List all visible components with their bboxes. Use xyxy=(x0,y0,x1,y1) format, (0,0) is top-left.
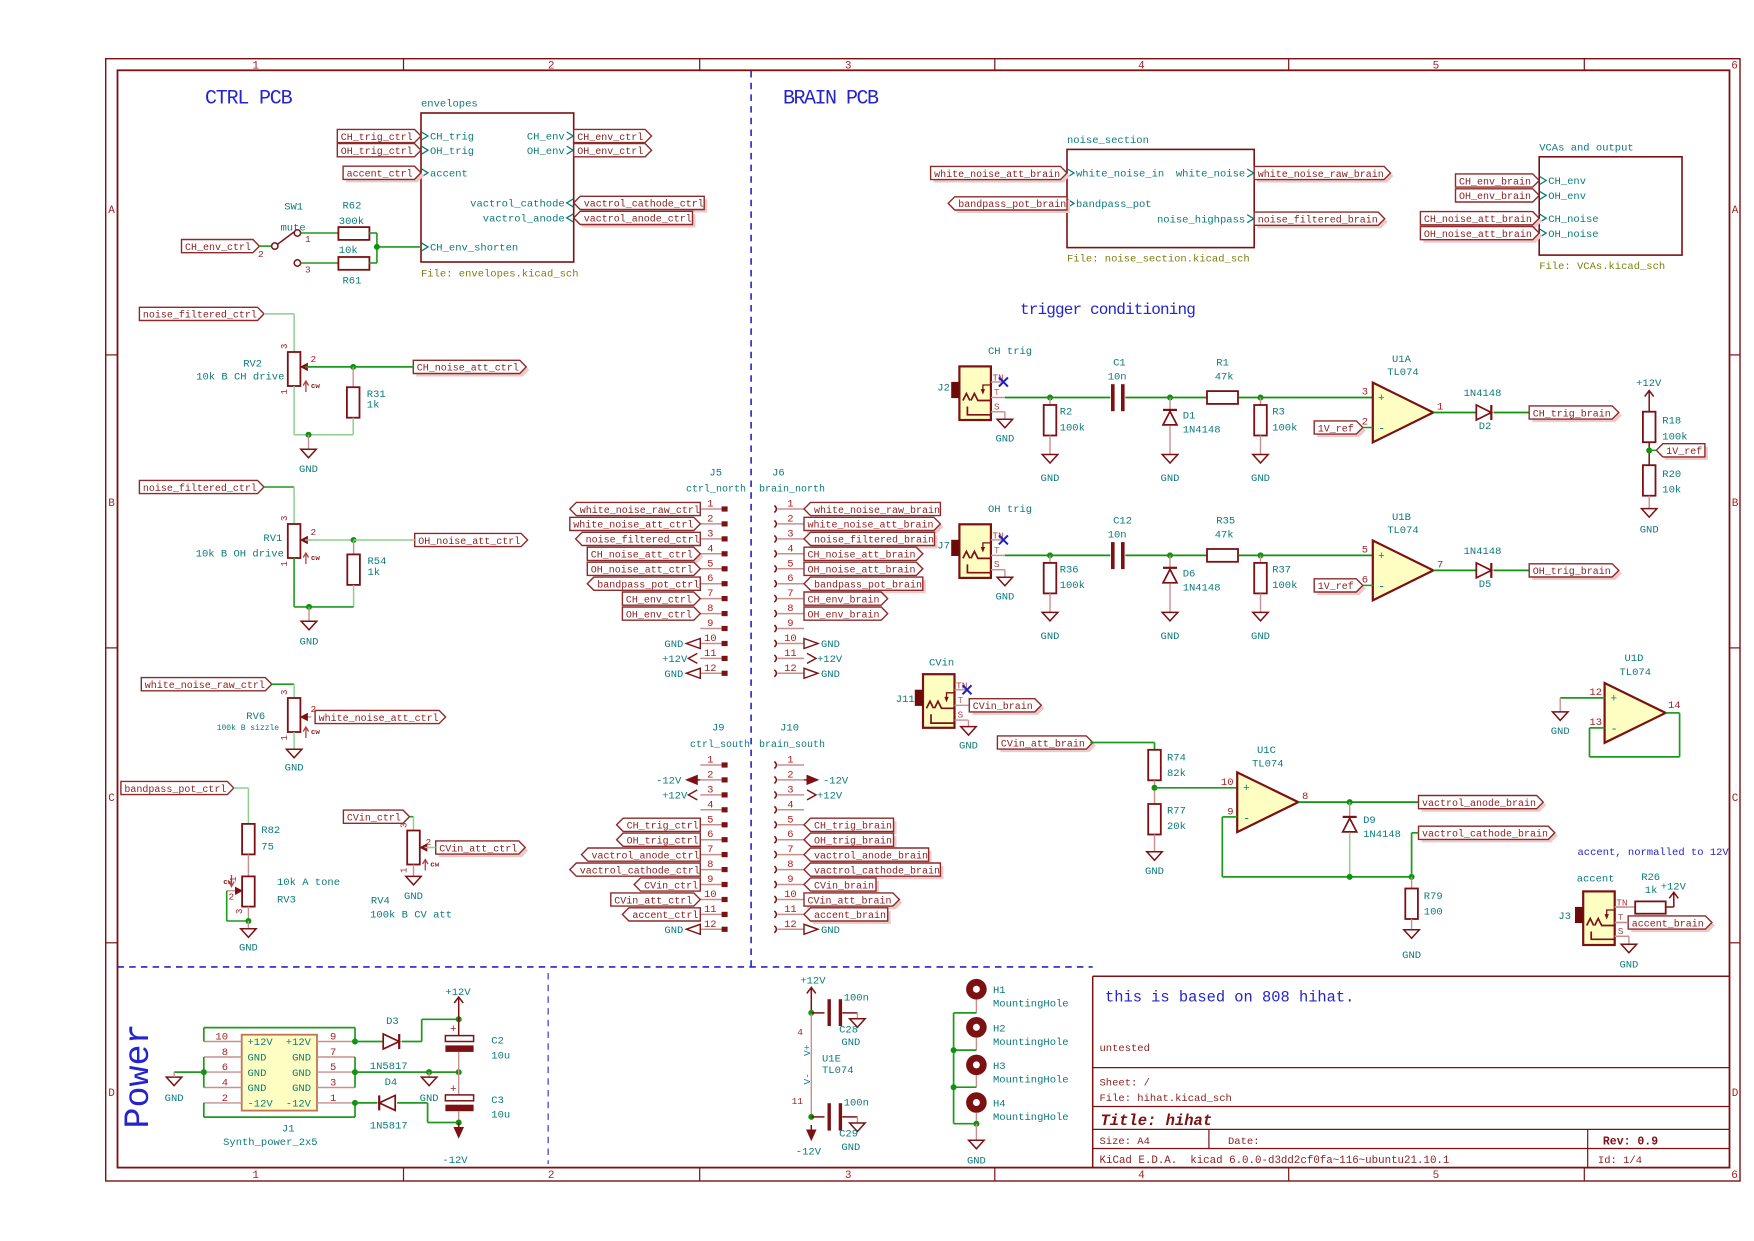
svg-text:RV1: RV1 xyxy=(263,533,282,545)
svg-text:2: 2 xyxy=(787,769,793,781)
svg-text:1N4148: 1N4148 xyxy=(1183,582,1221,594)
svg-text:Id: 1/4: Id: 1/4 xyxy=(1598,1155,1642,1167)
svg-text:noise_highpass: noise_highpass xyxy=(1157,214,1245,226)
svg-text:9: 9 xyxy=(707,618,713,630)
svg-text:ctrl_south: ctrl_south xyxy=(690,739,750,751)
svg-text:U1C: U1C xyxy=(1257,745,1276,757)
svg-text:5: 5 xyxy=(787,558,793,570)
svg-text:7: 7 xyxy=(330,1047,336,1059)
svg-text:10k: 10k xyxy=(1662,485,1681,497)
svg-text:100k B CV att: 100k B CV att xyxy=(370,910,452,922)
svg-text:47k: 47k xyxy=(1215,372,1234,384)
svg-text:4: 4 xyxy=(787,543,793,555)
svg-text:C3: C3 xyxy=(491,1095,504,1107)
svg-text:CVin_att_ctrl: CVin_att_ctrl xyxy=(614,895,692,907)
svg-text:11: 11 xyxy=(784,904,797,916)
svg-text:2: 2 xyxy=(311,354,317,365)
svg-text:R3: R3 xyxy=(1272,407,1285,419)
svg-text:GND: GND xyxy=(1145,866,1164,878)
svg-text:-: - xyxy=(1243,812,1250,826)
svg-text:GND: GND xyxy=(1161,473,1180,485)
svg-text:white_noise_in: white_noise_in xyxy=(1076,169,1164,181)
svg-text:CH_noise_att_brain: CH_noise_att_brain xyxy=(808,550,916,562)
svg-text:12: 12 xyxy=(704,663,717,675)
svg-text:D9: D9 xyxy=(1363,815,1376,827)
svg-text:7: 7 xyxy=(707,588,713,600)
svg-text:vactrol_cathode_brain: vactrol_cathode_brain xyxy=(814,865,940,877)
svg-text:GND: GND xyxy=(821,669,840,681)
svg-text:10n: 10n xyxy=(1108,529,1127,541)
svg-text:8: 8 xyxy=(787,859,793,871)
svg-text:cw: cw xyxy=(311,555,321,563)
svg-text:1: 1 xyxy=(400,868,410,873)
svg-text:bandpass_pot: bandpass_pot xyxy=(1076,199,1152,211)
svg-text:GND: GND xyxy=(1161,631,1180,643)
svg-text:GND: GND xyxy=(1041,631,1060,643)
svg-text:4: 4 xyxy=(707,799,713,811)
svg-text:+12V: +12V xyxy=(800,976,826,988)
svg-text:+: + xyxy=(450,1024,457,1036)
svg-text:5: 5 xyxy=(787,814,793,826)
svg-text:+: + xyxy=(1378,393,1385,405)
svg-text:CH_trig_ctrl: CH_trig_ctrl xyxy=(627,821,699,833)
svg-text:OH_trig: OH_trig xyxy=(430,146,474,158)
svg-text:C29: C29 xyxy=(839,1129,858,1141)
svg-text:CH_env: CH_env xyxy=(1548,176,1586,188)
svg-text:1N4148: 1N4148 xyxy=(1183,425,1221,437)
svg-text:11: 11 xyxy=(784,648,797,660)
svg-text:R37: R37 xyxy=(1272,564,1291,576)
svg-text:100k: 100k xyxy=(1060,580,1085,592)
svg-text:10: 10 xyxy=(1221,777,1234,789)
svg-text:CH_env_brain: CH_env_brain xyxy=(1459,176,1531,188)
svg-text:CVin_att_brain: CVin_att_brain xyxy=(1001,738,1085,750)
svg-text:5: 5 xyxy=(330,1062,336,1074)
svg-text:GND: GND xyxy=(1041,473,1060,485)
svg-text:noise_filtered_ctrl: noise_filtered_ctrl xyxy=(143,310,257,322)
svg-text:D5: D5 xyxy=(1479,579,1492,591)
svg-text:OH_env_ctrl: OH_env_ctrl xyxy=(626,609,692,621)
svg-text:GND: GND xyxy=(404,891,423,903)
svg-text:14: 14 xyxy=(1668,700,1681,712)
svg-text:+12V: +12V xyxy=(817,791,843,803)
svg-text:B: B xyxy=(108,498,115,510)
svg-text:-12V: -12V xyxy=(823,776,849,788)
svg-text:1N4148: 1N4148 xyxy=(1363,829,1401,841)
svg-text:Date:: Date: xyxy=(1228,1136,1260,1148)
svg-text:-12V: -12V xyxy=(796,1147,822,1159)
svg-text:C2: C2 xyxy=(491,1036,504,1048)
svg-text:cw: cw xyxy=(430,862,440,870)
svg-text:V-: V- xyxy=(802,1073,813,1084)
svg-text:R35: R35 xyxy=(1216,515,1235,527)
svg-text:OH_env_brain: OH_env_brain xyxy=(1459,191,1531,203)
svg-text:1: 1 xyxy=(305,234,311,245)
svg-text:4: 4 xyxy=(707,543,713,555)
svg-text:OH_noise_att_ctrl: OH_noise_att_ctrl xyxy=(591,565,693,577)
svg-text:4: 4 xyxy=(222,1078,228,1090)
svg-text:accent: accent xyxy=(1577,874,1615,886)
svg-text:1: 1 xyxy=(280,389,290,394)
svg-text:MountingHole: MountingHole xyxy=(993,999,1069,1011)
svg-text:12: 12 xyxy=(704,919,717,931)
svg-text:CH_noise: CH_noise xyxy=(1548,214,1598,226)
svg-text:6: 6 xyxy=(707,573,713,585)
svg-text:100: 100 xyxy=(1424,907,1443,919)
svg-text:GND: GND xyxy=(292,1053,311,1065)
svg-text:CH_noise_att_ctrl: CH_noise_att_ctrl xyxy=(591,550,693,562)
svg-text:2: 2 xyxy=(548,60,555,72)
svg-text:SW1: SW1 xyxy=(284,202,303,214)
svg-text:R77: R77 xyxy=(1167,806,1186,818)
svg-text:J6: J6 xyxy=(772,468,785,480)
svg-text:accent: accent xyxy=(430,169,468,181)
svg-text:U1A: U1A xyxy=(1392,354,1412,366)
svg-text:OH_noise: OH_noise xyxy=(1548,229,1598,241)
svg-text:white_noise_raw_ctrl: white_noise_raw_ctrl xyxy=(580,505,700,517)
svg-text:GND: GND xyxy=(248,1053,267,1065)
svg-text:1: 1 xyxy=(280,735,290,740)
svg-text:4: 4 xyxy=(1138,1170,1145,1182)
svg-text:6: 6 xyxy=(787,829,793,841)
svg-text:6: 6 xyxy=(707,829,713,841)
svg-text:CVin_brain: CVin_brain xyxy=(814,880,874,892)
svg-text:3: 3 xyxy=(845,1170,852,1182)
svg-text:1: 1 xyxy=(787,755,793,767)
svg-text:white_noise_att_ctrl: white_noise_att_ctrl xyxy=(573,520,693,532)
svg-text:vactrol_anode_brain: vactrol_anode_brain xyxy=(1422,798,1536,810)
svg-text:1N5817: 1N5817 xyxy=(370,1061,408,1073)
svg-text:vactrol_cathode_ctrl: vactrol_cathode_ctrl xyxy=(584,199,704,211)
svg-text:T: T xyxy=(994,387,1000,398)
svg-text:R2: R2 xyxy=(1060,407,1073,419)
svg-text:-: - xyxy=(1378,422,1385,436)
svg-text:GND: GND xyxy=(285,763,304,775)
svg-text:brain_south: brain_south xyxy=(759,739,825,751)
svg-text:GND: GND xyxy=(664,639,683,651)
svg-text:2: 2 xyxy=(426,837,432,848)
svg-text:GND: GND xyxy=(1251,473,1270,485)
svg-text:GND: GND xyxy=(664,669,683,681)
svg-text:100k B sizzle: 100k B sizzle xyxy=(217,724,280,733)
svg-text:100n: 100n xyxy=(844,993,869,1005)
svg-text:CVin_att_brain: CVin_att_brain xyxy=(808,895,892,907)
svg-text:U1D: U1D xyxy=(1625,653,1644,665)
svg-text:V+: V+ xyxy=(802,1044,813,1056)
svg-text:8: 8 xyxy=(707,859,713,871)
svg-text:J5: J5 xyxy=(709,468,722,480)
svg-text:10k B OH drive: 10k B OH drive xyxy=(196,549,284,561)
svg-text:GND: GND xyxy=(300,637,319,649)
svg-text:3: 3 xyxy=(845,60,852,72)
svg-text:OH_env: OH_env xyxy=(1548,191,1586,203)
svg-text:Synth_power_2x5: Synth_power_2x5 xyxy=(223,1137,318,1149)
svg-text:C12: C12 xyxy=(1113,515,1132,527)
svg-text:white_noise_att_ctrl: white_noise_att_ctrl xyxy=(319,713,439,725)
svg-text:GND: GND xyxy=(841,1142,860,1154)
svg-text:OH_trig_brain: OH_trig_brain xyxy=(814,836,892,848)
svg-text:GND: GND xyxy=(292,1068,311,1080)
svg-text:GND: GND xyxy=(248,1068,267,1080)
svg-text:7: 7 xyxy=(787,588,793,600)
svg-text:Power: Power xyxy=(119,1023,159,1128)
svg-text:untested: untested xyxy=(1100,1043,1150,1055)
svg-text:3: 3 xyxy=(787,528,793,540)
svg-text:BRAIN PCB: BRAIN PCB xyxy=(783,88,879,111)
svg-text:-12V: -12V xyxy=(248,1099,274,1111)
svg-text:vactrol_cathode_brain: vactrol_cathode_brain xyxy=(1422,829,1548,841)
svg-text:cw: cw xyxy=(311,383,321,391)
svg-text:1: 1 xyxy=(252,1170,259,1182)
svg-text:white_noise: white_noise xyxy=(1176,169,1245,181)
svg-text:H2: H2 xyxy=(993,1023,1006,1035)
svg-text:GND: GND xyxy=(1619,960,1638,972)
svg-text:CH_env_ctrl: CH_env_ctrl xyxy=(185,242,251,254)
svg-text:noise_filtered_ctrl: noise_filtered_ctrl xyxy=(586,535,700,547)
svg-text:OH_trig_ctrl: OH_trig_ctrl xyxy=(341,146,413,158)
svg-text:H1: H1 xyxy=(993,985,1006,997)
svg-text:D: D xyxy=(108,1088,115,1100)
svg-text:10u: 10u xyxy=(491,1050,510,1062)
svg-text:+12V: +12V xyxy=(1661,882,1687,894)
svg-text:-: - xyxy=(1611,722,1618,736)
svg-text:3: 3 xyxy=(280,690,290,695)
svg-text:1N5817: 1N5817 xyxy=(370,1121,408,1133)
svg-text:noise_section: noise_section xyxy=(1067,135,1149,147)
svg-text:3: 3 xyxy=(305,265,311,276)
svg-text:GND: GND xyxy=(165,1093,184,1105)
svg-text:+: + xyxy=(1243,783,1250,795)
svg-text:accent_ctrl: accent_ctrl xyxy=(632,910,698,922)
svg-text:2: 2 xyxy=(707,769,713,781)
svg-text:R20: R20 xyxy=(1662,469,1681,481)
svg-text:2: 2 xyxy=(548,1170,555,1182)
svg-text:MountingHole: MountingHole xyxy=(993,1074,1069,1086)
svg-text:RV6: RV6 xyxy=(246,711,265,723)
svg-text:TL074: TL074 xyxy=(1252,759,1284,771)
svg-text:ctrl_north: ctrl_north xyxy=(686,484,746,496)
svg-text:TL074: TL074 xyxy=(1620,667,1652,679)
svg-text:5: 5 xyxy=(707,558,713,570)
svg-text:2: 2 xyxy=(258,249,264,260)
svg-text:TL074: TL074 xyxy=(1387,367,1419,379)
svg-text:100k: 100k xyxy=(1060,422,1085,434)
svg-text:1: 1 xyxy=(229,877,239,882)
svg-text:OH trig: OH trig xyxy=(988,504,1032,516)
svg-text:1V_ref: 1V_ref xyxy=(1318,423,1354,435)
svg-text:J10: J10 xyxy=(780,723,799,735)
svg-text:CH_noise_att_ctrl: CH_noise_att_ctrl xyxy=(417,363,519,375)
svg-text:1: 1 xyxy=(330,1093,336,1105)
svg-text:1V_ref: 1V_ref xyxy=(1666,446,1702,458)
svg-text:Size: A4: Size: A4 xyxy=(1100,1136,1150,1148)
svg-text:3: 3 xyxy=(1362,387,1368,399)
svg-text:10: 10 xyxy=(784,889,797,901)
svg-text:J1: J1 xyxy=(282,1124,295,1136)
svg-text:R18: R18 xyxy=(1662,416,1681,428)
svg-text:C1: C1 xyxy=(1113,358,1126,370)
svg-text:accent_ctrl: accent_ctrl xyxy=(347,169,413,181)
svg-text:S: S xyxy=(994,401,1000,412)
svg-text:OH_trig_brain: OH_trig_brain xyxy=(1533,566,1611,578)
svg-text:12: 12 xyxy=(784,919,797,931)
svg-text:T: T xyxy=(958,695,964,706)
svg-text:D4: D4 xyxy=(385,1077,398,1089)
svg-text:S: S xyxy=(958,710,964,721)
svg-text:bandpass_pot_brain: bandpass_pot_brain xyxy=(814,580,922,592)
svg-text:D: D xyxy=(1732,1088,1739,1100)
svg-text:1: 1 xyxy=(707,499,713,511)
svg-text:J9: J9 xyxy=(712,723,725,735)
svg-text:2: 2 xyxy=(707,513,713,525)
svg-text:CVin_ctrl: CVin_ctrl xyxy=(347,813,401,825)
svg-text:-12V: -12V xyxy=(656,776,682,788)
svg-text:vactrol_cathode: vactrol_cathode xyxy=(470,199,565,211)
svg-text:white_noise_raw_ctrl: white_noise_raw_ctrl xyxy=(145,680,265,692)
svg-text:CH trig: CH trig xyxy=(988,346,1032,358)
svg-text:R82: R82 xyxy=(261,825,280,837)
svg-text:T: T xyxy=(994,545,1000,556)
svg-text:H3: H3 xyxy=(993,1061,1006,1073)
svg-text:10: 10 xyxy=(784,633,797,645)
svg-text:Sheet: /: Sheet: / xyxy=(1100,1078,1150,1090)
svg-text:3: 3 xyxy=(330,1078,336,1090)
svg-text:D2: D2 xyxy=(1479,421,1492,433)
svg-text:4: 4 xyxy=(797,1027,803,1038)
svg-text:Rev: 0.9: Rev: 0.9 xyxy=(1603,1136,1658,1149)
svg-text:accent_brain: accent_brain xyxy=(1632,918,1704,930)
svg-text:RV3: RV3 xyxy=(277,895,296,907)
svg-text:GND: GND xyxy=(821,639,840,651)
svg-text:GND: GND xyxy=(959,741,978,753)
svg-text:CH_env: CH_env xyxy=(527,132,565,144)
svg-text:9: 9 xyxy=(787,618,793,630)
svg-text:bandpass_pot_brain: bandpass_pot_brain xyxy=(958,199,1066,211)
svg-text:this is based on 808 hihat.: this is based on 808 hihat. xyxy=(1105,989,1354,1007)
svg-text:File: hihat.kicad_sch: File: hihat.kicad_sch xyxy=(1100,1093,1232,1105)
svg-text:brain_north: brain_north xyxy=(759,484,825,496)
svg-text:J7: J7 xyxy=(937,540,950,552)
svg-text:100k: 100k xyxy=(1272,422,1297,434)
svg-text:white_noise_raw_brain: white_noise_raw_brain xyxy=(814,505,940,517)
svg-text:R1: R1 xyxy=(1216,358,1229,370)
svg-text:S: S xyxy=(994,559,1000,570)
svg-text:+12V: +12V xyxy=(286,1037,312,1049)
svg-text:5: 5 xyxy=(1362,544,1368,556)
svg-text:B: B xyxy=(1732,498,1739,510)
svg-text:GND: GND xyxy=(239,943,258,955)
svg-text:1N4148: 1N4148 xyxy=(1464,546,1502,558)
svg-text:10: 10 xyxy=(704,633,717,645)
svg-text:GND: GND xyxy=(248,1083,267,1095)
svg-text:GND: GND xyxy=(841,1037,860,1049)
svg-text:5: 5 xyxy=(1433,60,1440,72)
svg-text:7: 7 xyxy=(787,844,793,856)
svg-text:CH_trig_brain: CH_trig_brain xyxy=(1533,408,1611,420)
svg-text:R26: R26 xyxy=(1641,872,1660,884)
svg-text:white_noise_att_brain: white_noise_att_brain xyxy=(808,520,934,532)
svg-text:J2: J2 xyxy=(937,383,950,395)
svg-text:8: 8 xyxy=(787,603,793,615)
svg-text:GND: GND xyxy=(299,464,318,476)
svg-text:R36: R36 xyxy=(1060,564,1079,576)
svg-text:CVin_ctrl: CVin_ctrl xyxy=(644,880,698,892)
svg-text:1k: 1k xyxy=(1645,885,1658,897)
svg-text:C: C xyxy=(1732,793,1739,805)
svg-text:4: 4 xyxy=(1138,60,1145,72)
svg-text:2: 2 xyxy=(229,892,235,903)
svg-text:TL074: TL074 xyxy=(1387,525,1419,537)
svg-text:100n: 100n xyxy=(844,1098,869,1110)
svg-text:GND: GND xyxy=(821,925,840,937)
svg-text:-12V: -12V xyxy=(442,1155,468,1167)
svg-text:GND: GND xyxy=(1640,525,1659,537)
svg-text:1N4148: 1N4148 xyxy=(1464,388,1502,400)
svg-text:white_noise_att_brain: white_noise_att_brain xyxy=(934,169,1060,181)
svg-text:2: 2 xyxy=(311,527,317,538)
svg-text:2: 2 xyxy=(222,1093,228,1105)
svg-text:bandpass_pot_ctrl: bandpass_pot_ctrl xyxy=(597,580,699,592)
svg-text:CVin: CVin xyxy=(929,658,954,670)
svg-text:1: 1 xyxy=(787,499,793,511)
svg-text:envelopes: envelopes xyxy=(421,99,478,111)
svg-text:9: 9 xyxy=(787,874,793,886)
svg-text:OH_env_ctrl: OH_env_ctrl xyxy=(577,146,643,158)
svg-text:D3: D3 xyxy=(386,1016,399,1028)
svg-text:11: 11 xyxy=(704,648,717,660)
svg-text:GND: GND xyxy=(1551,726,1570,738)
svg-text:-: - xyxy=(1378,579,1385,593)
svg-text:accent, normalled to 12V: accent, normalled to 12V xyxy=(1578,847,1730,859)
svg-text:cw: cw xyxy=(311,729,321,737)
svg-text:File: envelopes.kicad_sch: File: envelopes.kicad_sch xyxy=(421,269,579,281)
svg-text:R62: R62 xyxy=(343,201,362,213)
svg-text:GND: GND xyxy=(995,591,1014,603)
svg-text:TL074: TL074 xyxy=(822,1065,854,1077)
svg-text:CVin_brain: CVin_brain xyxy=(973,701,1033,713)
svg-text:CH_trig: CH_trig xyxy=(430,132,474,144)
svg-text:+12V: +12V xyxy=(662,791,688,803)
svg-text:MountingHole: MountingHole xyxy=(993,1112,1069,1124)
svg-text:CH_noise_att_brain: CH_noise_att_brain xyxy=(1424,214,1532,226)
svg-text:11: 11 xyxy=(704,904,717,916)
svg-text:10k B CH drive: 10k B CH drive xyxy=(196,371,284,383)
svg-text:accent_brain: accent_brain xyxy=(814,910,886,922)
svg-text:12: 12 xyxy=(784,663,797,675)
svg-text:8: 8 xyxy=(222,1047,228,1059)
svg-text:GND: GND xyxy=(664,925,683,937)
svg-text:3: 3 xyxy=(235,909,245,914)
svg-text:10k A tone: 10k A tone xyxy=(277,877,340,889)
svg-text:vactrol_anode_ctrl: vactrol_anode_ctrl xyxy=(584,214,692,226)
svg-text:+12V: +12V xyxy=(248,1037,274,1049)
svg-text:82k: 82k xyxy=(1167,768,1186,780)
svg-text:KiCad E.D.A. kicad 6.0.0-d3dd: KiCad E.D.A. kicad 6.0.0-d3dd2cf0fa~116~… xyxy=(1100,1155,1450,1167)
svg-text:CH_env_brain: CH_env_brain xyxy=(808,594,880,606)
svg-text:RV4: RV4 xyxy=(371,895,390,907)
svg-text:300k: 300k xyxy=(339,216,364,228)
svg-text:vactrol_anode_ctrl: vactrol_anode_ctrl xyxy=(592,850,700,862)
svg-text:3: 3 xyxy=(787,784,793,796)
svg-text:noise_filtered_brain: noise_filtered_brain xyxy=(814,535,934,547)
svg-text:OH_noise_att_ctrl: OH_noise_att_ctrl xyxy=(418,536,520,548)
svg-text:+12V: +12V xyxy=(1636,378,1662,390)
svg-text:3: 3 xyxy=(280,344,290,349)
svg-text:A: A xyxy=(1732,205,1739,217)
svg-text:9: 9 xyxy=(707,874,713,886)
svg-text:bandpass_pot_ctrl: bandpass_pot_ctrl xyxy=(124,784,226,796)
svg-text:100k: 100k xyxy=(1662,432,1687,444)
